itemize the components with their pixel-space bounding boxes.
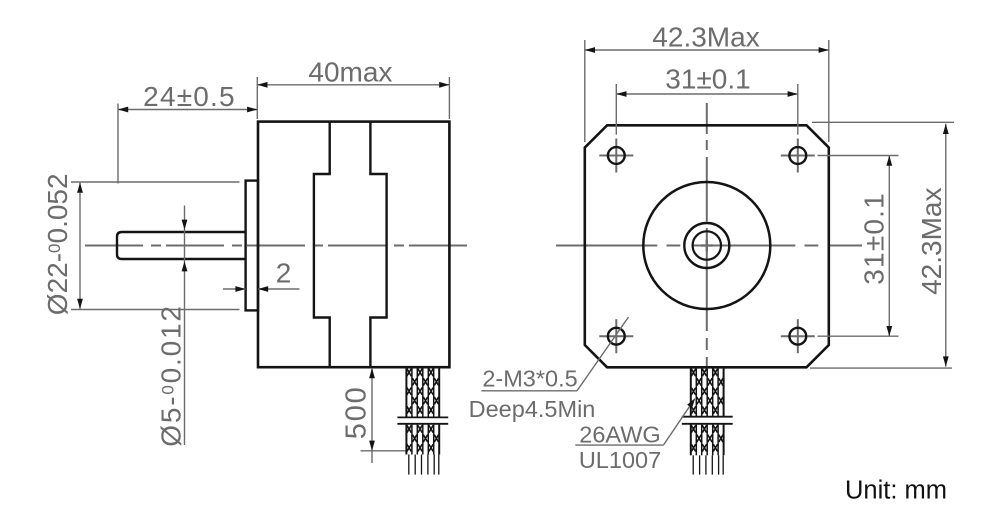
svg-text:31±0.1: 31±0.1 — [665, 63, 750, 94]
svg-text:2-M3*0.5: 2-M3*0.5 — [482, 366, 577, 392]
svg-text:40max: 40max — [308, 56, 392, 87]
svg-text:42.3Max: 42.3Max — [916, 187, 947, 294]
svg-text:31±0.1: 31±0.1 — [859, 192, 890, 285]
svg-text:24±0.5: 24±0.5 — [143, 81, 236, 112]
svg-text:Deep4.5Min: Deep4.5Min — [469, 396, 596, 422]
svg-text:500: 500 — [341, 385, 373, 439]
svg-text:Ø5-00.012: Ø5-00.012 — [156, 304, 187, 446]
svg-text:42.3Max: 42.3Max — [652, 21, 759, 52]
svg-text:26AWG: 26AWG — [579, 422, 660, 448]
svg-text:Unit: mm: Unit: mm — [845, 477, 947, 505]
svg-text:Ø22-00.052: Ø22-00.052 — [42, 173, 73, 315]
svg-text:2: 2 — [276, 257, 292, 288]
svg-text:UL1007: UL1007 — [579, 447, 661, 473]
